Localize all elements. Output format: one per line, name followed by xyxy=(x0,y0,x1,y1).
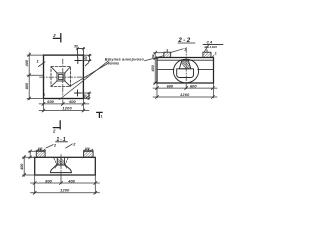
row1 ticks xyxy=(33,182,97,185)
diagonal TL xyxy=(51,67,57,73)
top anchor bolt cross xyxy=(75,58,81,64)
top bolt tick mark xyxy=(85,63,89,66)
section centerline xyxy=(185,48,187,87)
plan left dim ticks xyxy=(28,54,31,101)
dim 100 right box xyxy=(83,149,93,151)
svg-text:1: 1 xyxy=(101,114,103,118)
svg-text:1: 1 xyxy=(184,48,186,52)
vertical centerline plan xyxy=(62,59,64,95)
pedestal shoulder line xyxy=(57,164,66,166)
pos 2 leader left xyxy=(46,145,53,148)
left sleeve box xyxy=(36,151,45,157)
section mark 1 right xyxy=(97,112,103,117)
diagonal TR xyxy=(65,67,71,73)
cushion base xyxy=(177,69,194,78)
plan left dimension line xyxy=(27,53,44,100)
pos 2 leader right xyxy=(66,144,73,148)
section centerline vertical xyxy=(60,155,62,179)
svg-text:2: 2 xyxy=(52,128,56,133)
section dim row2 line xyxy=(153,96,217,98)
left sleeve pin xyxy=(40,149,42,152)
dashed anchor V right xyxy=(65,158,68,164)
svg-text:1200: 1200 xyxy=(62,106,72,111)
svg-text:600: 600 xyxy=(190,83,197,88)
leader line A to sleeve note xyxy=(60,61,109,100)
small central square outer xyxy=(57,73,65,81)
svg-text:600: 600 xyxy=(47,99,54,104)
diagonal BL xyxy=(51,81,57,86)
svg-text:50: 50 xyxy=(151,54,155,58)
svg-text:100: 100 xyxy=(37,147,42,151)
neck hatch xyxy=(181,61,190,69)
small central square inner xyxy=(59,75,64,80)
right sleeve box xyxy=(84,151,94,157)
slab left dim xyxy=(22,156,35,177)
socket circle xyxy=(173,59,198,83)
svg-text:1200: 1200 xyxy=(180,92,190,97)
plan dim row2 ticks xyxy=(42,109,85,112)
sleeve hatch xyxy=(58,159,65,165)
svg-text:2: 2 xyxy=(53,143,57,147)
pedestal base line xyxy=(50,172,71,174)
svg-text:100: 100 xyxy=(85,147,90,151)
svg-text:400: 400 xyxy=(151,64,155,72)
svg-text:1: 1 xyxy=(43,91,46,96)
left sleeve box on top xyxy=(164,52,171,57)
svg-text:400: 400 xyxy=(67,178,75,183)
dashed anchor V left xyxy=(54,158,57,164)
sleeve flare lines xyxy=(55,165,67,168)
section rect xyxy=(157,58,214,84)
svg-text:С.4: С.4 xyxy=(207,40,213,44)
plan dim row1 ticks xyxy=(42,102,85,105)
section dim row1 ticks xyxy=(156,87,215,90)
section left dim line xyxy=(154,53,165,84)
slab rect xyxy=(35,157,96,175)
bottom bolt tick mark xyxy=(86,95,90,98)
pedestal mound xyxy=(51,165,72,173)
svg-text:800: 800 xyxy=(45,178,52,183)
section bottom extension lines xyxy=(157,83,214,98)
bottom extension lines xyxy=(35,175,96,194)
svg-text:2: 2 xyxy=(52,33,56,38)
svg-text:400: 400 xyxy=(20,163,24,171)
right sleeve pin xyxy=(87,149,89,152)
bottom bolt vertical offset dim right of plate xyxy=(81,92,92,100)
sleeve neck trapezoid xyxy=(179,60,190,69)
section mark 2 bottom xyxy=(53,121,60,129)
svg-text:400: 400 xyxy=(25,59,29,67)
plan bottom extension lines xyxy=(44,99,84,112)
svg-text:50: 50 xyxy=(74,45,78,49)
right sleeve box on top xyxy=(203,52,211,57)
bottom anchor bolt cross xyxy=(75,90,81,96)
left box height dim xyxy=(29,151,38,158)
diagonal BR xyxy=(65,81,71,86)
section mark 2 top xyxy=(53,34,61,43)
svg-text:2: 2 xyxy=(72,143,76,147)
left sleeve pin xyxy=(166,50,168,53)
plate outline plan xyxy=(44,55,84,98)
svg-text:Вт1,8х5: Вт1,8х5 xyxy=(205,45,218,49)
inner step line left xyxy=(157,68,174,70)
svg-text:1: 1 xyxy=(37,59,40,64)
right sleeve pin xyxy=(206,50,208,52)
section left dim ticks xyxy=(154,51,157,84)
section dim row1 line xyxy=(153,87,217,89)
horizontal centerline plan xyxy=(40,76,88,78)
top bolt horizontal offset dim above plate xyxy=(77,48,85,58)
inner step line right xyxy=(198,68,214,70)
svg-text:1200: 1200 xyxy=(60,188,70,193)
svg-text:600: 600 xyxy=(167,83,174,88)
plan bottom dim row1 line xyxy=(39,103,89,105)
sleeve left in section xyxy=(57,158,64,165)
bottom dim row2 line xyxy=(31,192,100,194)
svg-text:1: 1 xyxy=(215,52,217,56)
leader from left box to note xyxy=(145,56,164,61)
row2 ticks xyxy=(33,191,97,194)
svg-text:болта: болта xyxy=(108,62,119,66)
leader line B to sleeve note xyxy=(70,63,109,86)
dashed socket square xyxy=(51,67,71,87)
inner collar line full width xyxy=(157,59,214,61)
section dim row2 ticks xyxy=(156,96,215,99)
svg-text:600: 600 xyxy=(69,99,76,104)
bottom dim row1 line xyxy=(31,182,100,184)
svg-text:800: 800 xyxy=(25,82,29,89)
plan bottom dim row2 line xyxy=(39,110,89,112)
top bolt vertical offset dim right of plate xyxy=(81,54,91,61)
svg-text:50: 50 xyxy=(84,56,88,60)
dim 100 left box xyxy=(36,149,46,151)
detail flag C.4 xyxy=(204,44,209,52)
